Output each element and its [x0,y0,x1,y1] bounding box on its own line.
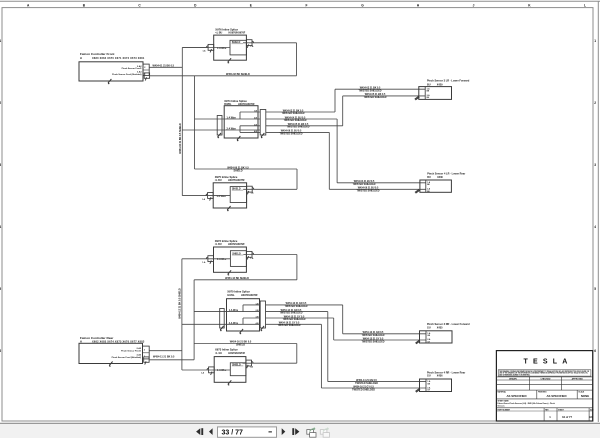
svg-text:A3: A3 [589,415,593,419]
connector glyph X972 output [246,251,253,259]
svg-text:TWISTED SHIELDED: TWISTED SHIELDED [362,335,385,337]
svg-text:CHECKED: CHECKED [541,379,551,381]
svg-text:Pinch Sensor 3 LR - Lower Forw: Pinch Sensor 3 LR - Lower Forward [427,80,470,83]
svg-text:GU: GU [427,327,431,330]
frame zone letters left [0,39,1,353]
svg-text:TWISTED SHIELDED: TWISTED SHIELDED [352,389,375,391]
svg-text:TESLA: TESLA [524,358,573,365]
svg-text:AS SPECIFIED: AS SPECIFIED [546,394,566,398]
svg-text:X429: X429 [437,83,443,86]
svg-text:<L BU: <L BU [215,243,222,246]
svg-text:GU: GU [427,375,431,378]
frame zone letters right [594,39,596,353]
wire X970 out3 to X435 pin2 [266,315,427,343]
connector glyph X972 input [206,256,213,264]
twist marks X970 [220,326,223,331]
svg-text:Pinch Sensor Feed1: Pinch Sensor Feed1 [121,350,142,353]
svg-text:34 of 77: 34 of 77 [562,415,573,419]
twist mark X973 [228,380,231,385]
twist mark controller front [108,79,111,84]
connector glyph X973 output [246,360,253,368]
svg-text:Falcon Doors-Pinch Sensors (LH: Falcon Doors-Pinch Sensors (LH) - RHD (2… [498,402,555,405]
svg-text:Pinch Sensor 4 LR - Lower Rear: Pinch Sensor 4 LR - Lower Rear [427,173,465,176]
svg-text:Falcon Controller Rear: Falcon Controller Rear [80,336,114,340]
last page button [292,428,299,435]
svg-text:W454-03 21 BK 0.5: W454-03 21 BK 0.5 [360,86,381,89]
svg-text:X430: X430 [437,176,443,179]
svg-text:AS SPECIFIED: AS SPECIFIED [506,394,526,398]
wire X973 output to bus D [243,362,297,364]
wire X974 out2 to X429 pin2 [266,116,426,186]
svg-text:W454-12 BK SHIELD: W454-12 BK SHIELD [225,277,249,280]
svg-text:<L BU: <L BU [215,32,222,35]
svg-text:F: F [306,3,308,7]
previous view icon [307,428,316,438]
svg-text:J: J [473,3,475,7]
wire X970 out4 to X436 pin2 [266,322,427,392]
connector glyph X973 input [207,367,214,375]
wire X974 out1 to X429 pin1 [266,86,425,115]
svg-text:6: 6 [594,349,596,353]
svg-text:TWISTED SHIELDED: TWISTED SHIELDED [280,133,303,135]
svg-text:SIZE: SIZE [590,409,594,411]
svg-text:DRAWN: DRAWN [509,378,517,381]
wire X972 output to bus D [243,254,297,256]
connector X436 Pinch Sensor 4 RR [420,371,466,391]
svg-text:HX972/HX972F: HX972/HX972F [228,243,245,246]
svg-text:SHIELD: SHIELD [234,169,243,172]
svg-text:NONE: NONE [581,394,589,398]
sheet name row [496,407,592,409]
svg-text:W454-15 21 GY 0.5: W454-15 21 GY 0.5 [284,315,305,318]
connector glyph controller rear shield pin [144,357,149,365]
connector glyph X975 output [247,186,254,194]
twist mark X976 [228,58,231,63]
svg-text:33 / 77: 33 / 77 [222,430,244,437]
svg-text:SCALE: SCALE [578,390,585,393]
first page button [196,428,203,435]
wire X972 input [208,258,231,260]
svg-text:Pinch Sensor 4 RR - Lower Rear: Pinch Sensor 4 RR - Lower Rear [427,371,465,374]
wire X975 output to node B [243,188,297,190]
svg-text:W454-04 21 BU 0.5: W454-04 21 BU 0.5 [285,116,306,119]
wire bus net B vertical [195,76,298,190]
svg-text:H: H [80,57,82,60]
connector X429 Pinch Sensor 3 LR [419,80,470,100]
splice X972 [214,239,247,272]
twist mark X436 [415,389,420,393]
wire X974 out3 to X430 pin1 [266,93,425,129]
svg-text:W454-14 21 GN 0.5: W454-14 21 GN 0.5 [281,309,302,312]
wire X970 internal splice [243,305,260,324]
svg-text:TWISTED SHIELDED: TWISTED SHIELDED [282,113,305,115]
svg-text:X435: X435 [437,327,443,330]
wire X974 internal splice [240,112,260,132]
connector glyph X976 output [246,40,253,48]
splice X973 [214,348,246,383]
svg-text:TWISTED SHIELDED: TWISTED SHIELDED [364,97,387,99]
twist mark X972 [228,270,231,275]
wire bus net C vertical [182,259,220,370]
twist marks X974 [218,133,221,138]
svg-text:2: 2 [594,101,596,105]
svg-text:TWISTED SHIELDED: TWISTED SHIELDED [284,120,307,122]
svg-text:W454-12 21 BK 0.5 SHIELD: W454-12 21 BK 0.5 SHIELD [179,288,182,319]
svg-text:TWISTED SHIELDED: TWISTED SHIELDED [362,341,385,343]
svg-text:GU/GL: GU/GL [227,294,235,297]
wire X970 input 2 [220,323,261,325]
svg-text:TWISTED SHIELDED: TWISTED SHIELDED [287,127,310,129]
svg-text:W454-04 21 BU 0.5: W454-04 21 BU 0.5 [354,180,375,183]
svg-text:W454-13 21 GN 0.5: W454-13 21 GN 0.5 [286,302,307,305]
svg-text:TWISTED SHIELDED: TWISTED SHIELDED [357,191,380,193]
svg-text:<L BU: <L BU [215,179,222,182]
svg-text:Sensors: Sensors [498,405,505,407]
twist mark X435 [415,340,420,344]
connector glyph X975 input [206,193,213,201]
next view icon (disabled) [320,428,329,438]
wire X970 out2 to X436 pin1 [266,309,427,385]
svg-text:HX975/HX975F: HX975/HX975F [228,179,245,182]
svg-text:BU: BU [427,83,431,86]
wire X976 output to node B [243,43,297,76]
svg-text:TWISTED SHIELDED: TWISTED SHIELDED [355,383,378,385]
wire X974 out4 to X430 pin2 [266,130,426,193]
wire W454-11 controller rear feed to bus C [149,351,182,359]
wire bus net A vertical [182,48,217,196]
svg-text:5: 5 [594,287,596,291]
svg-text:SHIELD: SHIELD [236,344,245,347]
wire X974 input 2 [217,129,260,131]
wire bus net D vertical [194,255,297,364]
svg-text:HX973/HX973F: HX973/HX973F [228,352,245,355]
svg-text:MATERIAL: MATERIAL [498,390,507,393]
connector glyph X976 input [207,44,214,52]
svg-text:TWISTED SHIELDED: TWISTED SHIELDED [353,184,376,186]
svg-text:TWISTED SHIELDED: TWISTED SHIELDED [283,319,306,321]
wire label net D lower [230,341,252,347]
title block outline [496,351,592,421]
svg-text:Pinch Sensor Feed (Shielded): Pinch Sensor Feed (Shielded) [112,73,142,76]
svg-text:1: 1 [594,39,596,43]
toolbar background [0,424,600,438]
svg-text:3: 3 [594,163,596,167]
wire X974 input 1 [217,118,260,120]
svg-text:W454-02 21 BK 0.5 SHIELD: W454-02 21 BK 0.5 SHIELD [179,123,182,154]
svg-text:SHEET NAME: SHEET NAME [498,399,510,402]
svg-text:W454-05 21 BK 0.5: W454-05 21 BK 0.5 [288,123,309,126]
wire controller front shield to node B [150,73,297,76]
splice X975 [213,175,246,208]
wire X973 input [207,369,230,371]
svg-text:W454-16 21 GY 0.5: W454-16 21 GY 0.5 [353,385,374,388]
svg-text:X970 Inline Splice: X970 Inline Splice [227,290,250,294]
previous page button [209,428,213,435]
frame zone letters top [27,3,586,7]
svg-text:W454-06 21 BU 0.5: W454-06 21 BU 0.5 [281,130,302,133]
next page button [282,428,286,435]
connector P2 Falcon Controller Rear [79,336,149,364]
wire X976 input [182,47,230,49]
twist mark X975 [227,206,230,211]
svg-text:W454-16 21 GY 0.5: W454-16 21 GY 0.5 [279,322,300,325]
approval table [496,377,592,390]
page number box [218,427,277,437]
svg-text:PART NUMBER: PART NUMBER [498,408,511,411]
svg-text:BU: BU [427,176,431,179]
svg-text:4: 4 [594,225,596,229]
splice X974 [217,99,266,138]
wire label bus A rotated [179,123,182,154]
wire X970 out1 to X435 pin1 [266,302,427,337]
material row [496,390,592,399]
svg-text:TWISTED SHIELDED: TWISTED SHIELDED [359,91,382,93]
svg-text:W454-02 BK SHIELD: W454-02 BK SHIELD [226,73,250,76]
svg-text:Pinch Sensor Feed1: Pinch Sensor Feed1 [122,67,143,70]
svg-text:W454-15 21 GY 0.5: W454-15 21 GY 0.5 [363,337,384,340]
wire W454-01 controller front feed to bus A [149,65,182,68]
svg-text:Pinch Sensor Feed (Shielded): Pinch Sensor Feed (Shielded) [112,356,142,359]
svg-text:X680 X684 X670 X671 X6: X680 X684 X670 X671 X672 X673 X681 [92,57,145,60]
twist mark X430 [415,190,420,194]
svg-text:SHEET: SHEET [558,409,565,411]
svg-text:W454-06 21 BU 0.5: W454-06 21 BU 0.5 [358,187,379,190]
svg-text:X436: X436 [437,375,443,378]
wire label bus C rotated [179,288,182,319]
svg-text:APPROVED: APPROVED [572,378,584,381]
wire label net B [227,166,249,172]
svg-text:W454-05 21 BK 0.5: W454-05 21 BK 0.5 [365,93,386,96]
connector P1 Falcon Controller Front [79,52,149,81]
wire controller rear shield to bus D [150,359,195,361]
connector glyph controller front shield pin [144,73,149,81]
splice X970 [220,290,266,332]
twist mark X429 [415,96,420,100]
svg-text:W454-03 21 BK 0.5: W454-03 21 BK 0.5 [283,109,304,112]
svg-text:W454-11 21 BK 0.5: W454-11 21 BK 0.5 [153,355,175,358]
twist mark controller rear [109,362,112,367]
splice X976 [214,28,247,60]
svg-text:W454-13 21 GN 0.5: W454-13 21 GN 0.5 [363,331,384,334]
connector X430 Pinch Sensor 4 LR [420,173,465,193]
connector X435 Pinch Sensor 3 RR [420,323,470,343]
wire X975 input [207,195,230,197]
svg-text:TWISTED SHIELDED: TWISTED SHIELDED [285,306,308,308]
wire X970 input 1 [220,311,261,313]
svg-text:HX970/HX970F: HX970/HX970F [241,294,258,297]
svg-text:W454-14 21 GN 0.5: W454-14 21 GN 0.5 [356,379,377,382]
svg-text:Falcon Controller Front: Falcon Controller Front [80,52,114,56]
svg-text:Pinch Sensor 3 RR - Lower Forw: Pinch Sensor 3 RR - Lower Forward [427,323,470,326]
svg-text:TWISTED SHIELDED: TWISTED SHIELDED [280,313,303,315]
svg-text:E: E [250,3,252,7]
svg-text:TWISTED SHIELDED: TWISTED SHIELDED [278,325,301,327]
disclaimer box [498,370,591,377]
part number row [496,408,592,421]
svg-text:L: L [584,3,586,7]
svg-text:<L GU: <L GU [215,352,222,355]
svg-text:HX976/HX976F: HX976/HX976F [229,32,246,35]
svg-text:W454-01 21 BK 0.5: W454-01 21 BK 0.5 [153,65,175,68]
